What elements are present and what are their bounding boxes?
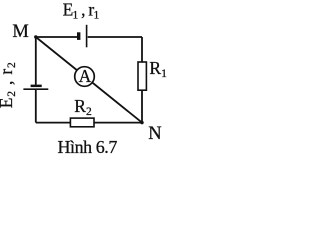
svg-text:R2: R2 bbox=[74, 96, 92, 118]
svg-text:M: M bbox=[12, 22, 28, 42]
svg-text:E1 , r1: E1 , r1 bbox=[63, 0, 100, 22]
svg-text:N: N bbox=[148, 124, 161, 144]
svg-text:Hình 6.7: Hình 6.7 bbox=[58, 137, 118, 157]
svg-text:A: A bbox=[79, 66, 92, 86]
svg-text:E2 , r2: E2 , r2 bbox=[0, 61, 18, 108]
svg-text:R1: R1 bbox=[149, 58, 167, 80]
